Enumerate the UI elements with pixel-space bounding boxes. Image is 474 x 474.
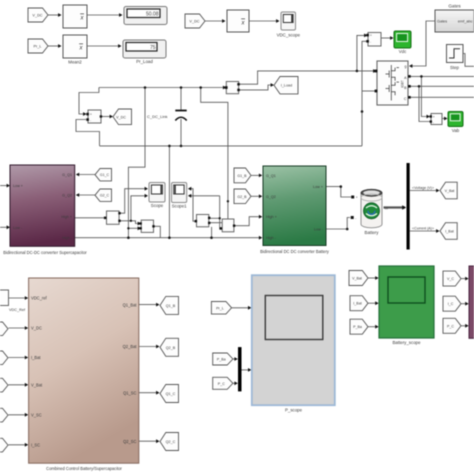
svg-text:V_SC: V_SC bbox=[31, 413, 42, 418]
svg-text:C_DC_Link: C_DC_Link bbox=[147, 114, 167, 119]
svg-text:G1_B: G1_B bbox=[237, 174, 247, 178]
svg-text:Step: Step bbox=[450, 65, 460, 70]
svg-text:Q2_Bat: Q2_Bat bbox=[123, 344, 138, 349]
svg-text:-: - bbox=[355, 216, 356, 220]
svg-text:Scope1: Scope1 bbox=[172, 204, 187, 209]
svg-text:High -: High - bbox=[266, 236, 277, 240]
svg-text:g: g bbox=[405, 65, 407, 69]
svg-text:-: - bbox=[90, 119, 91, 123]
svg-text:G2_B: G2_B bbox=[237, 195, 247, 199]
svg-text:Q2_C: Q2_C bbox=[166, 440, 176, 444]
svg-text:G_Q1: G_Q1 bbox=[62, 173, 72, 177]
svg-text:+: + bbox=[356, 196, 358, 200]
svg-text:I_Bat: I_Bat bbox=[353, 302, 361, 306]
svg-text:V_DC: V_DC bbox=[32, 14, 42, 18]
svg-text:+: + bbox=[433, 115, 435, 119]
svg-text:Vab: Vab bbox=[452, 128, 460, 133]
svg-text:Combined Control Battery/Super: Combined Control Battery/Supercapacitor bbox=[46, 466, 122, 471]
svg-text:+: + bbox=[90, 113, 92, 117]
svg-text:V_Bat: V_Bat bbox=[352, 277, 362, 281]
svg-text:I_Bat: I_Bat bbox=[445, 230, 453, 234]
svg-text:Vdc: Vdc bbox=[399, 49, 407, 54]
svg-text:50.08: 50.08 bbox=[146, 12, 159, 18]
svg-text:VDC_ref: VDC_ref bbox=[31, 296, 48, 301]
svg-text:V_DC: V_DC bbox=[189, 20, 199, 24]
svg-text:Low -: Low - bbox=[314, 228, 324, 232]
svg-text:G_Q2: G_Q2 bbox=[266, 195, 276, 199]
svg-text:G_Q1: G_Q1 bbox=[266, 174, 276, 178]
svg-text:I_Bat: I_Bat bbox=[31, 355, 41, 360]
svg-text:Q1_B: Q1_B bbox=[166, 304, 176, 308]
svg-text:Scope: Scope bbox=[151, 203, 164, 208]
svg-text:Q1_Bat: Q1_Bat bbox=[123, 302, 138, 307]
svg-text:V_Bat: V_Bat bbox=[31, 383, 43, 388]
svg-text:m: m bbox=[385, 206, 388, 210]
svg-text:V_C: V_C bbox=[447, 277, 454, 281]
svg-text:V_Bat: V_Bat bbox=[445, 189, 455, 193]
svg-text:I_SC: I_SC bbox=[31, 443, 40, 448]
svg-text:<Current (A)>: <Current (A)> bbox=[412, 227, 434, 231]
svg-text:I_Load: I_Load bbox=[281, 84, 292, 88]
svg-text:-: - bbox=[433, 121, 434, 125]
svg-text:VDC_scope: VDC_scope bbox=[277, 33, 301, 38]
svg-text:emf_abc: emf_abc bbox=[458, 20, 473, 24]
svg-text:-: - bbox=[370, 40, 371, 44]
svg-text:Low +: Low + bbox=[313, 185, 323, 189]
svg-text:I_C: I_C bbox=[448, 302, 454, 306]
svg-text:Low -: Low - bbox=[13, 226, 23, 230]
svg-text:P_scope: P_scope bbox=[285, 408, 303, 413]
svg-text:Gates: Gates bbox=[437, 20, 447, 24]
svg-text:High +: High + bbox=[61, 215, 72, 219]
svg-text:V_DC: V_DC bbox=[116, 115, 126, 119]
svg-text:Battery_scope: Battery_scope bbox=[392, 340, 421, 345]
svg-text:Bidirectional DC-DC converter: Bidirectional DC-DC converter Supercapac… bbox=[3, 250, 87, 255]
svg-text:G_Q2: G_Q2 bbox=[62, 194, 72, 198]
svg-text:Low +: Low + bbox=[13, 184, 23, 188]
svg-text:<Voltage (V)>: <Voltage (V)> bbox=[412, 186, 434, 190]
svg-text:Mean2: Mean2 bbox=[68, 60, 82, 65]
svg-text:High -: High - bbox=[62, 236, 73, 240]
svg-text:C: C bbox=[404, 97, 407, 101]
svg-text:P_Ba: P_Ba bbox=[353, 325, 362, 329]
svg-text:G1_C: G1_C bbox=[100, 173, 110, 177]
svg-text:Q2_B: Q2_B bbox=[166, 346, 176, 350]
svg-text:Pr_L: Pr_L bbox=[33, 45, 41, 49]
svg-text:Pr_L: Pr_L bbox=[216, 306, 224, 310]
svg-text:Q2_SC: Q2_SC bbox=[123, 439, 136, 444]
svg-text:G2_C: G2_C bbox=[100, 194, 110, 198]
svg-text:P_C: P_C bbox=[218, 382, 225, 386]
svg-text:Q1_C: Q1_C bbox=[166, 392, 176, 396]
svg-text:Bidirectional DC DC converter: Bidirectional DC DC converter Battery bbox=[260, 249, 330, 254]
svg-text:+: + bbox=[370, 34, 372, 38]
svg-text:75: 75 bbox=[150, 45, 156, 51]
svg-text:V_DC: V_DC bbox=[31, 326, 42, 331]
svg-text:Gates: Gates bbox=[448, 4, 461, 9]
svg-text:Pr_Load: Pr_Load bbox=[136, 59, 153, 64]
svg-text:VDC_Ref: VDC_Ref bbox=[9, 308, 26, 312]
svg-text:P_Ba: P_Ba bbox=[217, 358, 226, 362]
svg-text:P_C: P_C bbox=[447, 324, 454, 328]
svg-text:High +: High + bbox=[266, 215, 277, 219]
svg-text:Q1_SC: Q1_SC bbox=[123, 390, 136, 395]
svg-text:Battery: Battery bbox=[365, 230, 380, 235]
